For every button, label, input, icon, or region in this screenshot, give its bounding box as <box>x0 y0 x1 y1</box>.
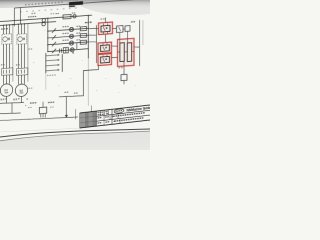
rung 2 coil box <box>80 33 86 37</box>
svg-text:M: M <box>19 88 22 93</box>
rung 2 indicator lamp <box>69 34 73 38</box>
rung 3 label <box>63 40 65 41</box>
terminal 1 wire with plug arrow <box>46 54 58 57</box>
rung 4 lamp <box>70 48 74 52</box>
terminal strip label marks <box>47 75 49 76</box>
text row under motors <box>1 99 3 100</box>
rung 1 indicator lamp <box>69 27 73 31</box>
junction stub between buses <box>20 8 22 25</box>
terminal strip left rail <box>45 53 47 73</box>
strip rail faint continuation <box>45 73 47 90</box>
stripe section horizontals <box>80 116 97 118</box>
paper background <box>0 0 150 150</box>
rung 3 coil box <box>80 40 86 44</box>
motor M2 label <box>16 64 18 65</box>
scan speckles <box>33 61 34 64</box>
relay K11 body <box>101 25 110 32</box>
motor M1 label <box>1 64 3 65</box>
motor M2 circle <box>15 84 27 97</box>
specks above relay A <box>101 18 103 19</box>
connector between rung3 and rung4 <box>76 43 78 50</box>
wire A bottom to B top <box>105 35 107 43</box>
motor M1 circle <box>0 84 12 97</box>
resistor box on bus <box>63 14 71 19</box>
rung 1 coil box <box>80 27 86 31</box>
contactor K1 <box>2 68 13 76</box>
ground bus wire <box>0 102 24 105</box>
bus line L2 <box>0 22 56 26</box>
aux device labels left <box>30 102 32 103</box>
company logo oval <box>114 108 124 113</box>
fuse label marks 30x <box>28 16 30 17</box>
frame left corner stub <box>13 8 15 26</box>
frame top border <box>15 0 150 8</box>
labels right of X2 <box>131 21 133 23</box>
rung 2 label <box>63 33 65 34</box>
stub X2 down to D2 <box>127 31 129 43</box>
contactor module D1 <box>120 43 124 62</box>
rail junction dots <box>47 31 48 32</box>
scanner top shadow band <box>0 0 150 8</box>
motor2 side marks <box>29 88 31 89</box>
wire rail to relay K11 <box>88 28 98 29</box>
terminal strip right rail <box>61 54 63 72</box>
title horizontal rules <box>97 110 151 116</box>
rung3 stub to relay C <box>88 41 96 42</box>
faint frame bottom <box>0 128 80 132</box>
title small cells <box>100 111 102 116</box>
drop wire with arrow <box>65 97 67 117</box>
control rung 2 wire <box>48 35 89 38</box>
rung 4 capacitor marks <box>59 49 61 53</box>
control rung 3 wire <box>48 42 89 45</box>
terminal block X2 <box>125 26 130 32</box>
title block outer border <box>80 105 151 128</box>
control right rail faint continuation <box>87 58 89 105</box>
title top cell second row <box>98 114 100 115</box>
relay K11 top stub <box>105 18 107 24</box>
wire X1-X2 <box>123 28 125 30</box>
motor feeder PE wire group 1 <box>12 25 14 82</box>
stub X1 down to D1 <box>119 33 121 44</box>
ground drop wire <box>11 103 13 113</box>
phase labels L1 L2 L3 <box>1 28 3 29</box>
rung right-end labels <box>77 26 78 27</box>
title mid separators <box>96 111 98 126</box>
label lik <box>85 22 87 24</box>
D to right wire connector <box>134 46 140 49</box>
highlight box A (red) <box>99 22 113 35</box>
aux box top wire <box>42 102 44 107</box>
D bottom wire <box>123 62 125 75</box>
right tall wire <box>139 20 141 66</box>
rung2 stub to relay B <box>88 35 96 36</box>
bus clutter cluster <box>32 13 34 14</box>
title block <box>80 99 153 128</box>
contactor K2 <box>17 68 28 76</box>
motor feeder wires group 1 upper <box>3 25 5 34</box>
rung 1 label <box>63 26 65 27</box>
bottom junction box <box>121 74 127 80</box>
relay column left wire <box>96 25 98 63</box>
C bottom hook wire <box>84 66 99 96</box>
bus junction dots <box>3 25 4 26</box>
rung 1 contact <box>52 28 56 32</box>
wires B,C to D <box>112 45 118 48</box>
wire labels right of group2 <box>29 49 30 50</box>
lower ground wire <box>0 112 21 114</box>
top-right pale wedge <box>78 0 182 15</box>
control rung 1 wire <box>48 28 89 31</box>
feeder wires group 1 middle <box>3 44 5 68</box>
small circle symbol on bus <box>73 15 76 18</box>
faint second right wire <box>142 20 144 45</box>
wire labels above ground wire <box>65 92 67 93</box>
reference designator row under frame <box>20 11 22 12</box>
control left rail <box>47 18 49 52</box>
small labels near motors <box>1 99 2 100</box>
horizontal wire to ground symbol <box>59 95 84 97</box>
D mid connector wires <box>124 51 127 53</box>
top-left darker corner <box>0 0 55 8</box>
rung 4 double box <box>63 47 68 53</box>
terminal 4 wire with plug arrow <box>46 69 58 72</box>
highlight box B (red) <box>98 42 112 53</box>
control rung 4 wire <box>48 49 89 52</box>
control right rail <box>87 16 89 59</box>
highlight box C (red) <box>98 54 112 66</box>
relay K12 body <box>101 45 110 52</box>
area below paper edge <box>0 131 150 150</box>
aux device labels right <box>48 102 50 103</box>
long bottom wire <box>0 115 78 122</box>
rung 4 contact <box>52 49 56 53</box>
title row3 text <box>98 122 100 123</box>
terminal 3 wire with plug arrow <box>46 64 58 67</box>
paper edge lower line <box>0 131 150 141</box>
second wire into title top <box>91 106 93 113</box>
paper edge upper line <box>0 129 150 137</box>
motor breaker Q1 <box>2 34 12 45</box>
wire down to title block <box>75 109 77 119</box>
bus line L1 <box>0 15 92 21</box>
header text row above frame <box>25 4 27 5</box>
title row2 text <box>98 117 100 118</box>
feeder wires group 2 middle <box>18 44 20 68</box>
title cell text marks row1 <box>98 112 100 113</box>
svg-text:M: M <box>4 88 7 93</box>
rung 3 contact <box>52 42 56 46</box>
specks below box D <box>119 67 121 68</box>
revision stripe section <box>81 113 83 128</box>
header dark label block <box>69 1 83 5</box>
relay K13 body <box>101 56 110 63</box>
current transformer circles <box>42 19 45 23</box>
label 2 near strip <box>72 52 74 54</box>
highlight box D (red) <box>118 38 135 66</box>
extra small labels row <box>28 107 29 108</box>
motor feeder PE wire group 2 <box>27 24 29 82</box>
terminal 2 wire with plug arrow <box>46 59 58 62</box>
contactor module D2 <box>127 43 131 62</box>
feeder wires group 1 lower <box>3 75 5 84</box>
feeder wires group 2 lower <box>18 75 20 84</box>
auxiliary device box <box>39 107 46 114</box>
terminal block X1 <box>117 26 124 33</box>
F1 label marks <box>51 13 52 14</box>
junction box tail <box>123 81 125 85</box>
motor ground wires <box>6 96 8 103</box>
wire K11 to terminal blocks <box>113 27 117 29</box>
rung 2 contact <box>52 35 56 39</box>
motor breaker Q2 <box>17 34 27 45</box>
bus extra symbols <box>56 13 57 14</box>
rung 3 indicator lamp <box>69 41 73 45</box>
motor feeder wires group 2 upper <box>18 24 20 34</box>
